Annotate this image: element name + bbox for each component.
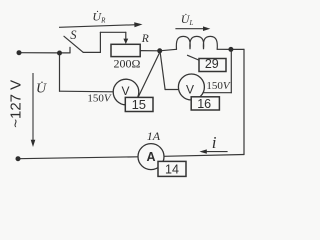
switch S contact riser <box>69 47 71 53</box>
rheostat wiper arrowhead <box>123 39 128 44</box>
svg-text:15: 15 <box>132 97 146 112</box>
switch S blade <box>64 36 83 52</box>
svg-text:V: V <box>186 82 194 96</box>
wire: bottom right to ammeter <box>164 155 244 157</box>
phasor arrow U_L <box>175 26 210 31</box>
svg-text:14: 14 <box>165 163 179 177</box>
svg-text:~127 V: ~127 V <box>8 80 25 128</box>
wire: switch to riser <box>83 51 100 53</box>
wire: left branch to left voltmeter <box>60 90 114 93</box>
value box 14 <box>158 161 186 176</box>
wire: top left horizontal <box>19 52 60 54</box>
svg-text:i: i <box>212 133 217 152</box>
svg-text:16: 16 <box>197 97 211 111</box>
inductor L coil <box>176 36 217 49</box>
svg-text:1A: 1A <box>147 129 161 143</box>
current arrow i <box>199 149 227 153</box>
wire: into right voltmeter right terminal <box>203 92 231 94</box>
svg-text:S: S <box>70 28 77 42</box>
svg-text:V: V <box>121 84 129 98</box>
svg-text:29: 29 <box>205 57 219 71</box>
value box 15 <box>125 97 153 111</box>
wire: top jog over to wiper <box>100 31 125 33</box>
wire: bottom left to ammeter <box>18 157 138 159</box>
svg-text:200Ω: 200Ω <box>113 57 140 71</box>
voltmeter V2 (right) <box>178 74 204 100</box>
node C junction after L <box>228 47 233 52</box>
node: top left terminal <box>17 50 22 55</box>
wire: stub into right voltmeter left terminal <box>165 89 179 91</box>
svg-text:A: A <box>146 150 155 164</box>
resistor R box <box>111 44 140 56</box>
voltmeter V1 (left) <box>113 79 139 105</box>
phasor arrow U source (down) <box>31 73 36 147</box>
wire: inductor to right node <box>217 48 231 50</box>
wire: node diagonal to right voltmeter <box>160 53 165 89</box>
svg-text:U̇: U̇ <box>36 80 47 96</box>
wire: wiper drop <box>125 32 127 40</box>
wire: right node down to voltmeter branch <box>230 51 232 93</box>
paper background <box>0 0 250 191</box>
wire: R box to node <box>140 50 160 52</box>
phasor arrow U_R <box>59 22 143 27</box>
svg-text:R: R <box>141 33 149 45</box>
wire: switch left stub <box>60 52 71 54</box>
wire: left branch down from junction <box>59 53 61 91</box>
wire: right rail down <box>243 49 245 154</box>
wire: right node to rail <box>231 48 244 50</box>
node B junction after R <box>157 48 162 53</box>
wire: node diagonal to left voltmeter / box15 <box>138 53 159 97</box>
leader line to box 15 <box>120 100 126 103</box>
value box 16 <box>191 97 219 110</box>
wire: riser up <box>99 32 101 52</box>
value box 29 <box>199 59 226 72</box>
wire: node to inductor <box>160 49 177 51</box>
node: bottom left terminal <box>16 156 21 161</box>
node A junction after terminal <box>57 51 62 56</box>
svg-text:150V: 150V <box>206 80 231 92</box>
ammeter A <box>138 144 164 170</box>
leader line to box 29 <box>188 55 200 60</box>
svg-text:150V: 150V <box>87 92 112 104</box>
